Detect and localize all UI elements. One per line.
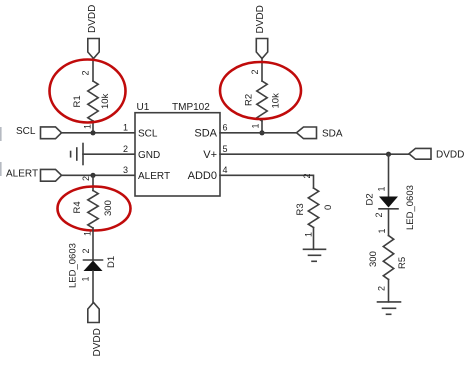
svg-text:LED_0603: LED_0603: [68, 243, 79, 288]
wire V+ (U1 pin 5 to DVDD connector): [220, 153, 409, 155]
red highlight ellipse around R2: [220, 62, 301, 119]
svg-text:1: 1: [377, 228, 387, 233]
junction (SCL / R1): [90, 130, 95, 135]
svg-text:SDA: SDA: [322, 129, 343, 140]
wire SDA (U1 pin 6 to connector): [220, 132, 297, 134]
resistor R3: [308, 188, 318, 228]
wire (R4 to D1 cathode): [92, 228, 94, 260]
svg-text:1: 1: [123, 123, 128, 133]
left edge artifact (cropped text): [0, 127, 2, 141]
svg-text:LED_0603: LED_0603: [405, 185, 416, 230]
red highlight ellipse around R1: [50, 60, 126, 123]
red highlight ellipse around R4: [58, 187, 131, 231]
wire GND (ground to U1 pin 2): [83, 153, 135, 155]
svg-text:2: 2: [302, 173, 312, 178]
wire (DVDD to R1 pin 2): [92, 59, 94, 82]
wire SCL (connector to U1 pin 1): [62, 132, 136, 134]
power symbol DVDD (top right): [256, 39, 267, 59]
svg-text:10k: 10k: [271, 93, 282, 109]
LED D1: [84, 259, 103, 261]
svg-text:5: 5: [223, 144, 228, 154]
wire (R5 to ground): [388, 280, 390, 302]
svg-text:2: 2: [81, 176, 91, 181]
svg-text:DVDD: DVDD: [87, 5, 98, 33]
svg-text:GND: GND: [138, 150, 160, 161]
wire (DVDD to R2 pin 2): [261, 59, 263, 82]
svg-text:6: 6: [223, 123, 228, 133]
power symbol DVDD (top left): [88, 39, 99, 59]
svg-text:R3: R3: [295, 203, 306, 215]
wire (V+ net down to D2): [388, 154, 390, 196]
svg-text:ALERT: ALERT: [6, 169, 38, 180]
svg-text:1: 1: [251, 123, 261, 128]
svg-text:2: 2: [250, 69, 260, 74]
IC U1 TMP102 box: [135, 113, 220, 196]
power symbol DVDD (bottom, pointing up): [88, 303, 99, 323]
wire (R1 pin 1 to SCL net): [92, 121, 94, 132]
wire ALERT (connector to U1 pin 3): [62, 174, 136, 176]
svg-text:TMP102: TMP102: [172, 102, 210, 113]
resistor R5: [383, 236, 393, 280]
svg-text:2: 2: [374, 212, 384, 217]
ground symbol (below R5): [378, 301, 401, 303]
svg-text:DVDD: DVDD: [436, 150, 464, 161]
svg-text:2: 2: [81, 70, 91, 75]
svg-text:1: 1: [81, 276, 91, 281]
svg-text:R5: R5: [397, 257, 408, 269]
junction (SDA / R2): [259, 130, 264, 135]
svg-text:1: 1: [83, 231, 93, 236]
wire (D2 cathode to R5): [388, 209, 390, 236]
svg-text:1: 1: [377, 186, 387, 191]
connector ALERT: [41, 169, 62, 181]
svg-text:DVDD: DVDD: [255, 5, 266, 33]
wire ADD0 (U1 pin 4 to R3): [220, 175, 314, 188]
ground symbol (below R3): [304, 248, 326, 250]
svg-text:V+: V+: [203, 149, 217, 161]
svg-text:0: 0: [323, 205, 334, 210]
svg-text:2: 2: [81, 248, 91, 253]
LED D2: [379, 197, 398, 208]
svg-text:R2: R2: [244, 94, 255, 106]
ground symbol GND (left, pointing left): [82, 144, 84, 165]
svg-text:3: 3: [123, 165, 128, 175]
svg-text:D1: D1: [106, 256, 117, 268]
svg-text:4: 4: [223, 165, 228, 175]
junction (ALERT / R4): [90, 173, 95, 178]
junction (V+ / D2): [386, 152, 391, 157]
svg-text:300: 300: [103, 200, 114, 216]
wire (ALERT net to R4): [92, 175, 94, 190]
svg-text:D2: D2: [365, 193, 376, 205]
svg-text:ALERT: ALERT: [138, 171, 170, 182]
wire (R2 pin 1 to SDA net): [261, 121, 263, 133]
svg-text:ADD0: ADD0: [188, 170, 217, 182]
connector SCL: [41, 127, 62, 139]
svg-text:SCL: SCL: [16, 126, 36, 137]
svg-text:DVDD: DVDD: [92, 328, 103, 356]
connector DVDD (right): [409, 148, 431, 159]
svg-text:1: 1: [83, 124, 93, 129]
svg-text:10k: 10k: [100, 93, 111, 109]
wire (R3 to ground): [313, 228, 315, 250]
svg-text:U1: U1: [137, 102, 150, 113]
svg-text:SCL: SCL: [138, 129, 158, 140]
svg-text:1: 1: [304, 232, 314, 237]
svg-text:R4: R4: [72, 201, 83, 213]
svg-text:2: 2: [123, 144, 128, 154]
resistor R1: [88, 81, 98, 121]
resistor R4: [88, 191, 98, 229]
svg-text:R1: R1: [72, 95, 83, 107]
resistor R2: [257, 81, 267, 121]
svg-text:SDA: SDA: [194, 128, 217, 140]
svg-text:2: 2: [377, 286, 387, 291]
connector SDA: [297, 127, 317, 139]
svg-text:300: 300: [368, 251, 379, 267]
wire (D1 anode to DVDD): [92, 271, 94, 303]
